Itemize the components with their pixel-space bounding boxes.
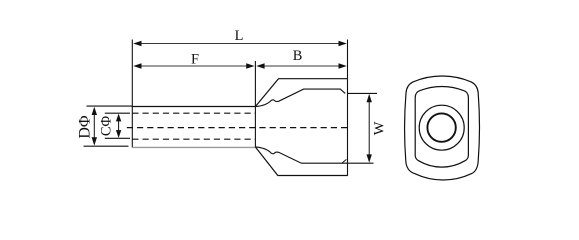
extension line left (tube left edge extended): [131, 40, 133, 148]
tube bottom outline (grey): [132, 146, 255, 148]
extension line C bottom: [105, 137, 130, 139]
dimension line F: [133, 63, 254, 68]
extension line W top: [348, 92, 378, 94]
extension line right (collar right edge extended): [347, 40, 349, 176]
tube top outline: [132, 106, 255, 108]
collar funnel inner bottom: [255, 147, 347, 163]
collar funnel inner top: [255, 89, 345, 107]
extension line W bottom: [348, 162, 374, 164]
svg-text:CΦ: CΦ: [98, 115, 114, 136]
dimension arrow D: [92, 107, 97, 146]
svg-text:L: L: [235, 28, 244, 44]
hidden line inner hole bottom: [132, 138, 255, 140]
svg-text:W: W: [371, 121, 387, 135]
collar outer outline bottom: [255, 147, 347, 176]
dimension line B: [256, 63, 347, 68]
svg-text:DΦ: DΦ: [76, 115, 93, 139]
dimension line L: [133, 41, 347, 46]
svg-text:F: F: [191, 52, 199, 68]
extension line C top: [105, 112, 130, 114]
extension line D top: [87, 105, 133, 107]
extension line D bottom: [84, 145, 129, 147]
collar corner chamfer bottom: [342, 159, 347, 163]
end view inner circle: [427, 113, 455, 141]
svg-text:B: B: [293, 48, 303, 64]
extension line middle (tube right edge extended): [254, 61, 256, 147]
end view inner shell: [415, 86, 468, 167]
collar outer outline top: [255, 79, 347, 107]
end view outer circle: [419, 105, 464, 150]
end view outer shell: [405, 76, 480, 180]
dimension arrow C: [116, 114, 121, 138]
hidden line inner hole top: [132, 112, 255, 114]
dimension arrow W: [367, 94, 372, 163]
center line: [127, 127, 350, 129]
